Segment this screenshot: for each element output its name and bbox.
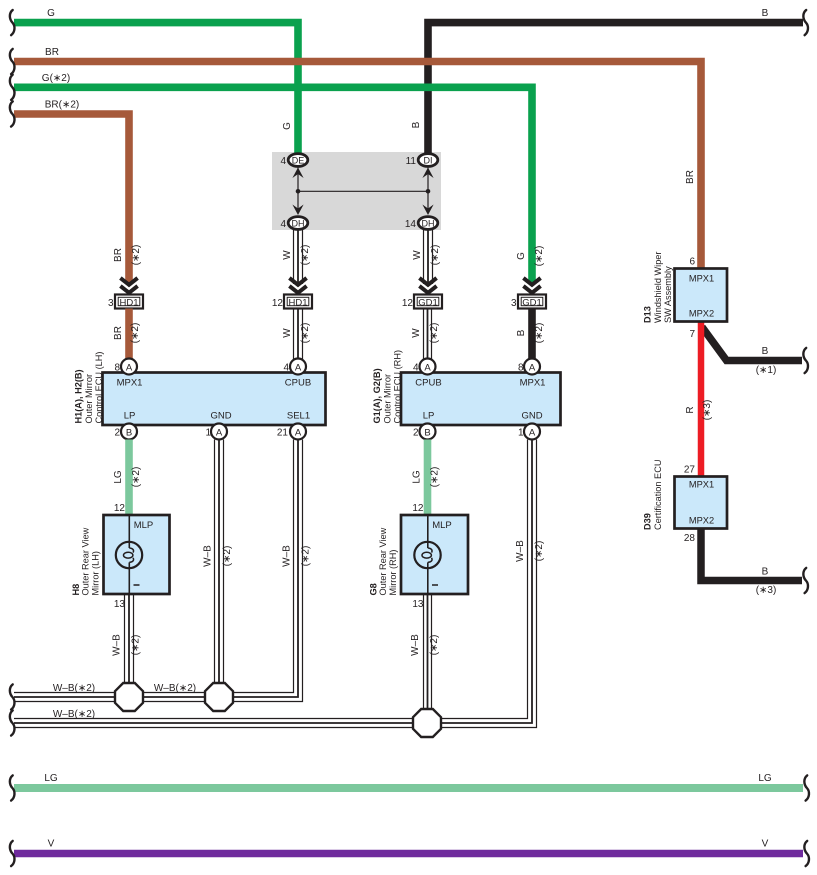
svg-text:LP: LP — [423, 411, 435, 422]
wire LG bus bottom — [14, 784, 803, 792]
wire W(*2) pair below DH left — [294, 230, 303, 285]
wire W-B pair SEL1 down and corner — [14, 440, 303, 702]
svg-text:3: 3 — [511, 298, 517, 309]
svg-text:2: 2 — [114, 428, 120, 439]
svg-text:A: A — [424, 362, 431, 373]
svg-text:Mirror (RH): Mirror (RH) — [388, 550, 398, 596]
svg-text:SEL1: SEL1 — [287, 411, 310, 422]
connector box HD1 (12) — [284, 295, 312, 309]
wire W pair below GD1-12 — [424, 309, 432, 361]
svg-text:BR: BR — [113, 248, 124, 262]
svg-text:4: 4 — [280, 219, 286, 230]
svg-text:CPUB: CPUB — [285, 378, 311, 389]
connector oval DH left — [288, 217, 308, 230]
svg-text:21: 21 — [277, 428, 289, 439]
wire BR(*2) bus (brown, to HD1) — [14, 114, 129, 284]
svg-text:Outer Rear View: Outer Rear View — [81, 527, 91, 595]
svg-text:B: B — [126, 427, 132, 438]
pin circle 8A RH — [524, 359, 540, 375]
svg-text:MPX2: MPX2 — [689, 516, 714, 526]
wire W(*2) pair below DH right — [424, 230, 433, 285]
svg-text:BR: BR — [45, 47, 59, 58]
junction dot right — [426, 189, 431, 194]
svg-text:W: W — [282, 250, 293, 260]
svg-text:A: A — [529, 362, 536, 373]
svg-text:W: W — [282, 328, 293, 338]
brace right B(*3) — [803, 568, 808, 593]
ground octagon 3 — [413, 709, 441, 737]
svg-text:28: 28 — [684, 533, 696, 544]
svg-text:LG: LG — [113, 470, 124, 484]
svg-text:G: G — [47, 8, 55, 19]
svg-text:2: 2 — [413, 428, 419, 439]
svg-text:CPUB: CPUB — [415, 378, 441, 389]
wire LG RH — [424, 440, 432, 517]
svg-text:12: 12 — [402, 298, 414, 309]
svg-text:(∗1): (∗1) — [756, 365, 777, 376]
pin circle 1A RH — [524, 424, 540, 440]
brace right B(*1) — [803, 348, 808, 373]
svg-text:A: A — [295, 427, 302, 438]
svg-text:BR: BR — [113, 326, 124, 340]
svg-text:Outer Rear View: Outer Rear View — [378, 527, 388, 595]
svg-text:1: 1 — [205, 428, 211, 439]
wire W-B pair below G8 — [424, 594, 432, 714]
wire BR below HD1-3 — [125, 309, 133, 361]
svg-text:(∗2): (∗2) — [131, 635, 142, 656]
wire BR bus (brown, to D13 pin 6) — [14, 62, 701, 272]
svg-text:MLP: MLP — [432, 520, 452, 531]
svg-text:G: G — [516, 252, 527, 260]
svg-text:8: 8 — [518, 363, 524, 374]
junction block shading (gray box) — [272, 152, 441, 230]
pin circle 2B LH — [121, 424, 137, 440]
chevrons above GD1-12 — [419, 278, 436, 293]
svg-text:MPX1: MPX1 — [117, 378, 143, 389]
svg-text:BR: BR — [685, 170, 696, 184]
svg-text:(∗2): (∗2) — [534, 246, 545, 267]
arrow up to DE — [292, 168, 303, 179]
junction dot left — [296, 189, 301, 194]
svg-text:(∗2): (∗2) — [131, 245, 142, 266]
pin circle 4A RH — [420, 359, 436, 375]
connector oval DI — [418, 154, 438, 167]
svg-text:W–B: W–B — [515, 540, 526, 562]
svg-text:DI: DI — [424, 155, 433, 165]
svg-text:(∗3): (∗3) — [702, 400, 713, 421]
svg-text:Control ECU (RH): Control ECU (RH) — [393, 350, 403, 424]
chevrons above HD1-12 — [289, 278, 306, 293]
pin circle 2B RH — [420, 424, 436, 440]
svg-text:MLP: MLP — [134, 520, 154, 531]
svg-text:(∗2): (∗2) — [429, 635, 440, 656]
svg-text:W–B(∗2): W–B(∗2) — [53, 709, 95, 720]
svg-text:A: A — [126, 362, 133, 373]
ground octagon 1 — [115, 683, 143, 711]
brace left BR(*2) — [10, 101, 15, 126]
brace right B — [803, 10, 808, 35]
svg-text:6: 6 — [689, 257, 695, 268]
svg-text:GD1: GD1 — [522, 297, 542, 308]
svg-text:B: B — [762, 346, 769, 357]
svg-text:MPX1: MPX1 — [689, 480, 714, 490]
svg-text:12: 12 — [412, 503, 424, 514]
arrow down to DH right — [422, 205, 433, 216]
H8 bulb MLP — [116, 515, 153, 594]
svg-text:(∗2): (∗2) — [131, 467, 142, 488]
svg-text:HD1: HD1 — [119, 297, 138, 308]
svg-text:G8: G8 — [369, 583, 379, 595]
svg-text:LG: LG — [412, 470, 423, 484]
svg-text:DE: DE — [292, 155, 305, 165]
svg-text:(∗2): (∗2) — [430, 245, 441, 266]
wire B(*1) branch from D13 pin 7 — [702, 327, 802, 361]
svg-text:G1(A), G2(B): G1(A), G2(B) — [372, 368, 382, 423]
svg-text:B: B — [762, 567, 769, 578]
connector oval DH right — [418, 217, 438, 230]
brace left LG — [10, 775, 15, 800]
node DE stem — [297, 166, 299, 191]
svg-text:DH: DH — [422, 218, 435, 228]
wire W-B pair below H8 — [125, 594, 134, 688]
svg-text:W–B: W–B — [282, 545, 293, 567]
brace left V — [10, 841, 15, 866]
connector oval DE — [288, 154, 308, 167]
svg-text:HD1: HD1 — [288, 297, 307, 308]
svg-text:W–B: W–B — [112, 634, 123, 656]
svg-text:B: B — [516, 329, 527, 336]
svg-text:Control ECU (LH): Control ECU (LH) — [94, 352, 104, 424]
arrow up to DI — [422, 168, 433, 179]
mirror H8 box — [104, 515, 170, 594]
svg-text:4: 4 — [413, 363, 419, 374]
svg-text:W: W — [412, 250, 423, 260]
svg-text:DH: DH — [292, 218, 305, 228]
svg-text:V: V — [48, 839, 55, 850]
chevrons above HD1-3 — [120, 278, 137, 293]
svg-text:H8: H8 — [71, 584, 81, 596]
svg-text:27: 27 — [684, 465, 696, 476]
svg-text:8: 8 — [114, 363, 120, 374]
D39 box — [675, 477, 728, 529]
svg-text:7: 7 — [689, 329, 695, 340]
svg-text:Outer Mirror: Outer Mirror — [84, 374, 94, 424]
svg-text:H1(A), H2(B): H1(A), H2(B) — [74, 369, 84, 423]
brace left G(*2) — [10, 75, 15, 100]
svg-text:D13: D13 — [643, 306, 653, 323]
connector box HD1 (3) — [115, 295, 143, 309]
svg-text:13: 13 — [412, 599, 424, 610]
svg-text:W: W — [411, 328, 422, 338]
wire LG LH — [125, 440, 133, 517]
svg-text:(∗2): (∗2) — [534, 541, 545, 562]
svg-text:W–B(∗2): W–B(∗2) — [154, 683, 196, 694]
svg-text:G: G — [282, 122, 293, 130]
svg-text:Windshield Wiper: Windshield Wiper — [653, 252, 663, 323]
svg-text:W–B: W–B — [203, 545, 214, 567]
svg-text:11: 11 — [406, 156, 417, 167]
svg-text:(∗2): (∗2) — [222, 546, 233, 567]
svg-text:(∗2): (∗2) — [300, 245, 311, 266]
pin circle 8A LH — [121, 359, 137, 375]
svg-text:B: B — [411, 121, 422, 128]
svg-text:(∗2): (∗2) — [301, 546, 312, 567]
brace left BR — [10, 49, 15, 74]
wire W pair below HD1-12 — [294, 309, 303, 361]
svg-text:LG: LG — [758, 773, 772, 784]
connector box GD1 (3) — [518, 295, 546, 309]
wire V bus bottom — [14, 850, 803, 858]
svg-text:(∗2): (∗2) — [300, 323, 311, 344]
svg-text:(∗2): (∗2) — [430, 467, 441, 488]
svg-text:MPX2: MPX2 — [689, 309, 714, 319]
svg-text:Outer Mirror: Outer Mirror — [383, 374, 393, 424]
svg-text:3: 3 — [108, 298, 114, 309]
svg-text:B: B — [762, 8, 769, 19]
svg-text:W–B(∗2): W–B(∗2) — [53, 683, 95, 694]
svg-text:MPX1: MPX1 — [520, 378, 546, 389]
wire R from D13 to D39 — [698, 322, 705, 478]
wire G bus (green, top left to DE) — [14, 23, 298, 157]
wire W-B lower run to RH GND — [14, 440, 537, 728]
svg-text:LP: LP — [124, 411, 136, 422]
svg-text:4: 4 — [283, 363, 289, 374]
junction crossbar — [298, 190, 428, 192]
svg-text:MPX1: MPX1 — [689, 274, 714, 284]
mirror G8 box — [401, 515, 468, 594]
ECU LH box — [103, 373, 326, 426]
svg-text:GND: GND — [521, 411, 542, 422]
brace left W-B upper — [10, 684, 15, 709]
svg-text:A: A — [295, 362, 302, 373]
svg-text:D39: D39 — [643, 513, 653, 530]
wire B below GD1-3 — [528, 309, 536, 361]
ECU RH box — [401, 373, 561, 426]
ground octagon 2 — [205, 683, 233, 711]
svg-text:(∗2): (∗2) — [429, 323, 440, 344]
svg-text:A: A — [216, 427, 223, 438]
svg-text:14: 14 — [405, 219, 417, 230]
svg-text:GD1: GD1 — [418, 297, 438, 308]
brace left W-B lower — [10, 710, 15, 735]
svg-text:12: 12 — [272, 298, 284, 309]
svg-text:SW Assembly: SW Assembly — [663, 266, 673, 323]
pin circle 4A LH — [290, 359, 306, 375]
wire B bus (black, top right to DI) — [428, 23, 803, 157]
svg-text:1: 1 — [518, 428, 524, 439]
svg-text:LG: LG — [44, 773, 58, 784]
pin circle 1A LH — [211, 424, 227, 440]
svg-text:BR(∗2): BR(∗2) — [45, 100, 80, 111]
svg-text:B: B — [424, 427, 430, 438]
svg-text:Mirror (LH): Mirror (LH) — [90, 551, 100, 595]
DH stems — [297, 191, 299, 210]
svg-text:(∗3): (∗3) — [756, 585, 777, 596]
svg-text:V: V — [762, 839, 769, 850]
chevrons above GD1-3 — [523, 278, 540, 293]
svg-text:4: 4 — [280, 156, 286, 167]
svg-text:W–B: W–B — [410, 634, 421, 656]
svg-text:GND: GND — [210, 411, 231, 422]
svg-text:Certification ECU: Certification ECU — [653, 460, 663, 530]
wire G(*2) bus (green, to GD1) — [14, 87, 532, 284]
svg-text:12: 12 — [114, 503, 126, 514]
svg-text:(∗2): (∗2) — [534, 323, 545, 344]
brace left G — [10, 10, 15, 35]
node DI stem — [427, 166, 429, 191]
svg-text:A: A — [529, 427, 536, 438]
arrow down to DH left — [292, 205, 303, 216]
wire W-B pair LH GND down — [215, 440, 224, 689]
brace right LG — [804, 775, 809, 800]
G8 bulb MLP — [414, 515, 451, 594]
pin circle 21A LH — [290, 424, 306, 440]
svg-text:13: 13 — [114, 599, 126, 610]
connector box GD1 (12) — [414, 295, 442, 309]
brace right V — [804, 841, 809, 866]
svg-text:G(∗2): G(∗2) — [42, 73, 70, 84]
D13 box — [675, 269, 728, 322]
wire B(*3) from D39 pin 28 — [701, 529, 802, 581]
svg-text:R: R — [685, 406, 696, 413]
svg-text:(∗2): (∗2) — [130, 323, 141, 344]
